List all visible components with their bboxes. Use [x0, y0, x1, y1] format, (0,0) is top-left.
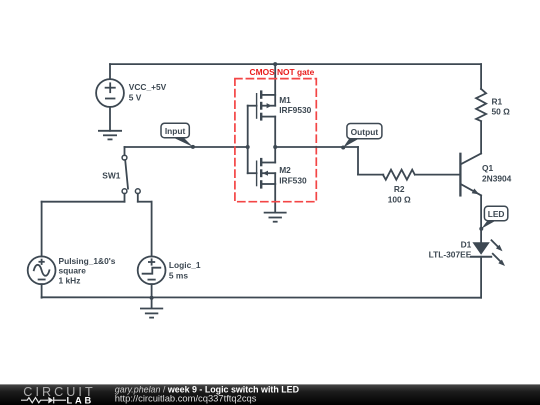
svg-text:2N3904: 2N3904: [482, 174, 512, 184]
svg-text:SW1: SW1: [102, 170, 120, 180]
svg-text:CMOS NOT gate: CMOS NOT gate: [250, 67, 315, 77]
svg-text:5 V: 5 V: [129, 93, 142, 103]
svg-text:M1: M1: [279, 95, 291, 105]
svg-text:D1: D1: [461, 239, 472, 249]
svg-text:M2: M2: [279, 165, 291, 175]
voltage source V3 Logic_1: [138, 256, 166, 297]
LED emission arrows: [492, 240, 506, 266]
label Q1 2N3904: [482, 163, 512, 183]
wire input row: [125, 146, 248, 148]
transistor M2 IRF530 (NMOS): [248, 147, 276, 189]
label D1 LTL-307EE: [429, 239, 472, 259]
transistor Q1 2N3904: [460, 154, 481, 229]
wire top rail: [110, 63, 481, 65]
label M1 IRF9530: [279, 95, 311, 115]
svg-text:Pulsing_1&0's: Pulsing_1&0's: [59, 256, 116, 266]
svg-text:50 Ω: 50 Ω: [492, 107, 511, 117]
svg-text:Output: Output: [351, 127, 379, 137]
footer bar: [0, 384, 540, 405]
ground below V1: [98, 131, 122, 140]
wire SW1 left throw to V2: [42, 194, 125, 257]
svg-text:1 kHz: 1 kHz: [59, 275, 81, 285]
svg-text:R2: R2: [394, 184, 405, 194]
svg-text:LTL-307EE: LTL-307EE: [429, 250, 472, 260]
node label Output: [341, 124, 382, 150]
transistor M1 IRF9530 (PMOS): [248, 64, 276, 147]
label R1 50 Ohm: [492, 96, 511, 116]
ground below bottom rail: [140, 298, 163, 318]
svg-text:100 Ω: 100 Ω: [388, 195, 411, 205]
junction bottom rail / ground: [150, 296, 154, 300]
voltage source V1 VCC_+5V: [96, 64, 124, 131]
label M2 IRF530: [279, 165, 307, 185]
svg-text:Input: Input: [165, 126, 186, 136]
svg-text:LAB: LAB: [67, 395, 95, 405]
label VCC_+5V 5 V: [129, 82, 167, 102]
voltage source V2 Pulsing_1&0's: [28, 256, 56, 297]
wire output row: [275, 147, 383, 175]
svg-text:VCC_+5V: VCC_+5V: [129, 82, 167, 92]
svg-text:Q1: Q1: [482, 163, 494, 173]
svg-text:IRF530: IRF530: [279, 175, 307, 185]
resistor R2 100 Ohm: [383, 170, 415, 180]
svg-text:R1: R1: [492, 96, 503, 106]
svg-text:square: square: [59, 266, 87, 276]
ground below CMOS: [264, 213, 287, 222]
svg-text:http://circuitlab.com/cq337tft: http://circuitlab.com/cq337tftq2cqs: [115, 392, 257, 403]
wire M2 source to ground: [274, 184, 276, 213]
svg-text:5 ms: 5 ms: [169, 270, 188, 280]
label Logic_1 5 ms: [169, 260, 201, 280]
junction input/gate bus: [246, 145, 250, 149]
wire gate bus: [247, 106, 249, 174]
label Pulsing_1&0's square 1 kHz: [59, 256, 116, 286]
wire from input row down to SW1: [124, 147, 126, 155]
diode D1 LTL-307EE (LED): [471, 229, 491, 298]
svg-text:LED: LED: [488, 209, 505, 219]
junction top rail / CMOS supply: [273, 62, 277, 66]
node label LED: [479, 206, 508, 231]
resistor R1 50 Ohm: [476, 64, 486, 153]
node label Input: [161, 123, 195, 149]
junction output node: [273, 145, 277, 149]
label R2 100 Ohm: [388, 184, 411, 204]
CircuitLab logo resistor+diode glyph: [21, 397, 66, 404]
switch SW1: [122, 155, 140, 193]
svg-text:Logic_1: Logic_1: [169, 260, 201, 270]
wire SW1 right throw to V3: [138, 194, 152, 257]
wire R2 to Q1 base: [416, 174, 461, 176]
CMOS NOT gate dashed box: [235, 79, 316, 202]
svg-text:IRF9530: IRF9530: [279, 105, 311, 115]
wire bottom rail: [42, 296, 482, 298]
